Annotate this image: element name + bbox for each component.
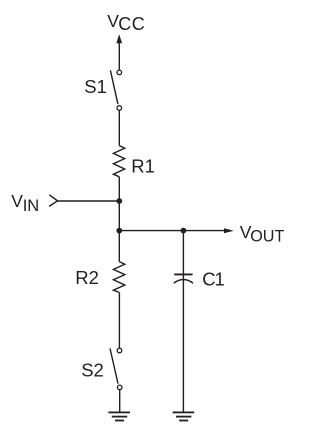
svg-text:C1: C1 [202,269,224,290]
svg-text:S2: S2 [81,360,104,381]
svg-text:V: V [11,191,23,211]
svg-text:R2: R2 [75,267,99,288]
svg-text:S1: S1 [84,76,107,97]
svg-text:R1: R1 [131,156,155,177]
svg-text:CC: CC [118,14,145,34]
svg-text:OUT: OUT [250,227,284,245]
svg-text:IN: IN [23,197,40,215]
